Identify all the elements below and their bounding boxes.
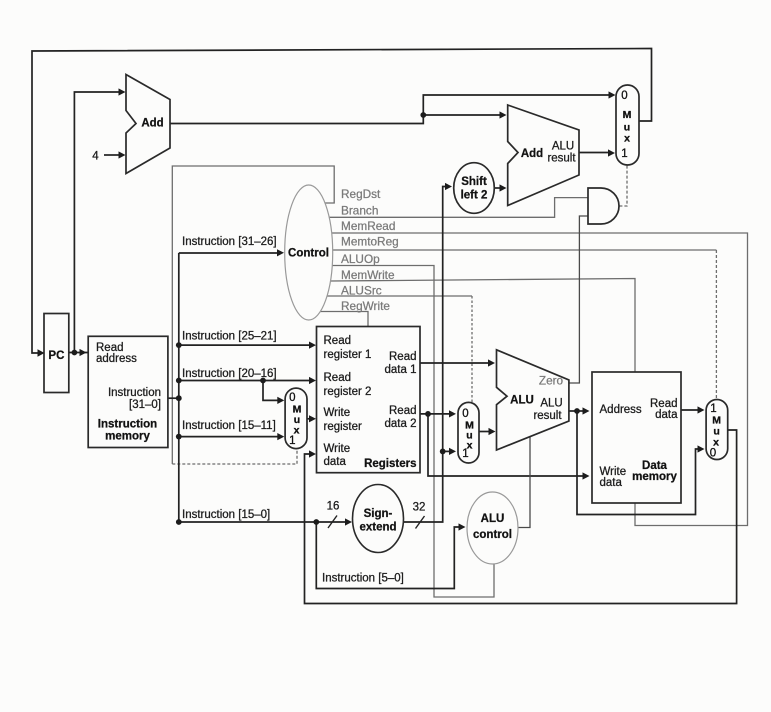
svg-text:RegDst: RegDst: [341, 187, 381, 201]
svg-text:memory: memory: [105, 431, 150, 443]
svg-text:data 1: data 1: [385, 364, 417, 376]
svg-text:Write: Write: [324, 407, 351, 419]
svg-text:16: 16: [327, 501, 340, 513]
svg-text:0: 0: [289, 392, 295, 404]
svg-text:register 2: register 2: [324, 386, 372, 398]
svg-text:ALU: ALU: [481, 513, 505, 525]
svg-text:ALU: ALU: [552, 141, 574, 153]
svg-text:0: 0: [462, 408, 468, 420]
svg-text:Read: Read: [389, 405, 417, 417]
svg-text:data 2: data 2: [385, 418, 417, 430]
svg-text:Instruction [31–26]: Instruction [31–26]: [182, 236, 277, 248]
svg-text:Zero: Zero: [539, 374, 564, 388]
svg-text:RegWrite: RegWrite: [341, 299, 390, 313]
svg-text:Write: Write: [324, 443, 351, 455]
svg-text:result: result: [533, 410, 562, 422]
svg-text:Instruction [15–11]: Instruction [15–11]: [182, 420, 276, 432]
svg-text:Instruction [25–21]: Instruction [25–21]: [182, 331, 277, 343]
svg-text:x: x: [294, 425, 300, 437]
svg-text:1: 1: [289, 435, 295, 447]
svg-text:Address: Address: [600, 404, 642, 416]
svg-text:register 1: register 1: [324, 349, 372, 361]
svg-text:PC: PC: [48, 350, 64, 362]
svg-text:data: data: [655, 409, 678, 421]
svg-text:ALUSrc: ALUSrc: [341, 284, 382, 298]
svg-text:left 2: left 2: [461, 190, 488, 202]
svg-text:ALU: ALU: [540, 398, 562, 410]
svg-text:Instruction [15–0]: Instruction [15–0]: [182, 509, 270, 521]
svg-text:Branch: Branch: [341, 204, 378, 218]
svg-text:ALU: ALU: [510, 395, 534, 407]
svg-text:[31–0]: [31–0]: [129, 399, 161, 411]
svg-text:memory: memory: [632, 471, 677, 483]
svg-text:0: 0: [710, 448, 716, 460]
svg-text:0: 0: [621, 90, 627, 102]
svg-text:Instruction: Instruction: [98, 419, 157, 431]
svg-text:Read: Read: [389, 351, 417, 363]
svg-text:result: result: [547, 153, 576, 165]
svg-text:32: 32: [413, 502, 426, 514]
svg-text:4: 4: [92, 151, 99, 163]
svg-text:Read: Read: [324, 372, 352, 384]
svg-text:M: M: [623, 109, 632, 121]
svg-text:MemRead: MemRead: [341, 219, 395, 233]
svg-text:x: x: [624, 133, 630, 145]
svg-text:Instruction [5–0]: Instruction [5–0]: [322, 573, 404, 585]
svg-text:MemWrite: MemWrite: [341, 268, 395, 282]
svg-text:extend: extend: [359, 522, 396, 534]
svg-text:Read: Read: [324, 335, 352, 347]
svg-text:Add: Add: [141, 118, 163, 130]
svg-text:Add: Add: [521, 148, 543, 160]
svg-text:Instruction: Instruction: [108, 387, 161, 399]
svg-text:data: data: [324, 456, 347, 468]
svg-text:control: control: [473, 529, 512, 541]
svg-text:ALUOp: ALUOp: [341, 252, 380, 266]
svg-text:register: register: [324, 421, 363, 433]
svg-text:Shift: Shift: [461, 176, 487, 188]
svg-text:data: data: [600, 477, 623, 489]
svg-text:x: x: [467, 440, 473, 452]
svg-text:1: 1: [710, 403, 716, 415]
svg-text:address: address: [96, 353, 137, 365]
svg-text:Instruction [20–16]: Instruction [20–16]: [182, 368, 277, 380]
svg-text:x: x: [713, 437, 719, 449]
svg-text:Sign-: Sign-: [364, 508, 393, 520]
svg-text:Registers: Registers: [364, 458, 416, 470]
svg-text:MemtoReg: MemtoReg: [341, 235, 399, 249]
svg-text:Control: Control: [288, 248, 329, 260]
svg-text:1: 1: [621, 148, 627, 160]
